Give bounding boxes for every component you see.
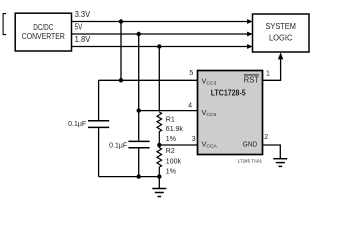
svg-text:5V: 5V [75, 23, 83, 32]
svg-text:100k: 100k [166, 158, 182, 165]
svg-text:3.3V: 3.3V [75, 10, 91, 19]
wire VCCA pin 3 [159, 144, 197, 146]
node R2 bottom [157, 174, 161, 178]
svg-text:1.8V: 1.8V [75, 35, 91, 44]
svg-text:LTC1728-5: LTC1728-5 [211, 89, 247, 98]
svg-text:LOGIC: LOGIC [269, 32, 293, 42]
svg-text:DC/DC: DC/DC [33, 23, 53, 32]
arrowhead RST into system logic [278, 52, 283, 59]
svg-text:17285 TA01: 17285 TA01 [237, 159, 262, 164]
svg-text:R1: R1 [166, 116, 175, 123]
system logic box [253, 14, 310, 52]
svg-text:SYSTEM: SYSTEM [265, 21, 296, 31]
node C2 bottom [137, 174, 141, 178]
svg-text:R2: R2 [166, 148, 175, 155]
DC/DC converter module [15, 13, 71, 51]
wire GND pin 2 [263, 145, 281, 159]
resistor R2 [157, 145, 162, 177]
svg-text:2: 2 [264, 134, 268, 141]
wire 5V drop [138, 34, 140, 111]
svg-text:0.1µF: 0.1µF [109, 142, 127, 149]
svg-text:1: 1 [266, 70, 270, 77]
svg-text:RST: RST [244, 76, 259, 85]
capacitor C2 0.1uF [128, 111, 149, 177]
wire 3.3V drop [120, 22, 122, 81]
node divider tap [157, 143, 161, 147]
wire 3.3V rail [72, 21, 249, 23]
svg-text:1%: 1% [166, 169, 176, 176]
wire ground rail [99, 176, 160, 178]
bracket mark top-left [3, 14, 6, 35]
wire VCC3 pin 5 [99, 79, 198, 81]
svg-text:61.9k: 61.9k [166, 126, 184, 133]
resistor R1 [157, 112, 162, 145]
wire 1.8V rail [72, 46, 249, 48]
arrowhead 1.8V into system logic [247, 44, 253, 49]
svg-text:0.1µF: 0.1µF [68, 121, 86, 128]
arrowhead 3.3V into system logic [247, 19, 253, 24]
node 5V to VCC5 [137, 108, 141, 112]
node 5V tap [137, 32, 141, 36]
label R2 100k 1% [166, 148, 182, 175]
svg-text:GND: GND [243, 139, 258, 148]
wire 5V rail [72, 33, 249, 35]
wire RST pin 1 [263, 58, 281, 81]
node 3.3V tap [119, 19, 123, 23]
svg-text:5: 5 [189, 70, 193, 77]
svg-text:1%: 1% [166, 136, 176, 143]
node 3.3V to VCC3 [119, 78, 123, 82]
wire VCC5 pin 4 [139, 110, 198, 112]
arrowhead 5V into system logic [247, 32, 253, 37]
svg-text:CONVERTER: CONVERTER [22, 32, 65, 41]
svg-text:3: 3 [192, 136, 196, 143]
svg-text:4: 4 [188, 103, 192, 110]
ground at pin 2 [273, 159, 287, 167]
wire 1.8V drop [158, 47, 160, 112]
capacitor C1 0.1uF [88, 80, 109, 176]
label R1 61.9k 1% [166, 116, 184, 143]
ground below divider [152, 177, 166, 197]
IC U1 LTC1728-5 [198, 71, 263, 155]
node 1.8V tap [157, 44, 161, 48]
